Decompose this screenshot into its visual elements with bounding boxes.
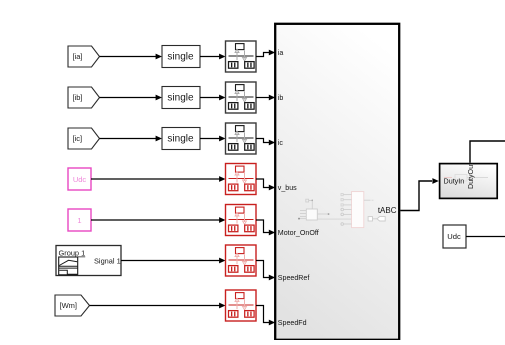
goto block Udc (right) bbox=[443, 225, 466, 248]
wire single to rate transition (row 1) bbox=[200, 54, 226, 60]
subsystem Motor Control block bbox=[275, 24, 399, 340]
subsystem block DutyIn/DutyOut bbox=[440, 163, 498, 198]
rate transition block RT5 bbox=[226, 205, 257, 236]
wire subsystem tABC to DutyIn block bbox=[400, 178, 439, 210]
From tag [Wm] bbox=[55, 295, 90, 316]
data type conversion block single (row 3) bbox=[162, 128, 200, 150]
wire rate transition to subsystem port [ic] bbox=[256, 139, 275, 146]
svg-text:1: 1 bbox=[77, 216, 81, 225]
wire [ia] to single bbox=[100, 54, 163, 60]
wire RT5 to subsystem port Motor_OnOff bbox=[256, 220, 275, 235]
rate transition block RT1 bbox=[226, 41, 257, 72]
rate transition block RT3 bbox=[226, 123, 257, 154]
signal builder block Group 1 / Signal 1 bbox=[56, 246, 121, 276]
constant block Udc (magenta) bbox=[68, 168, 91, 190]
svg-text:ic: ic bbox=[278, 139, 284, 147]
wire Udc to rate transition RT4 bbox=[91, 176, 226, 182]
svg-text:Udc: Udc bbox=[447, 232, 461, 241]
svg-text:[ib]: [ib] bbox=[73, 93, 83, 102]
svg-text:v_bus: v_bus bbox=[278, 184, 297, 192]
wire RT4 to subsystem port v_bus bbox=[256, 179, 275, 190]
rate transition block RT7 bbox=[226, 290, 257, 321]
wire [ic] to single bbox=[100, 136, 163, 142]
svg-text:[ia]: [ia] bbox=[73, 52, 83, 61]
rate transition block RT2 bbox=[226, 82, 257, 113]
wire RT7 to subsystem port SpeedFd bbox=[256, 306, 275, 326]
wire Udc right to edge bbox=[466, 236, 505, 238]
svg-text:Udc: Udc bbox=[73, 175, 87, 184]
rate transition block RT4 bbox=[226, 164, 257, 195]
svg-text:DutyOut: DutyOut bbox=[467, 163, 475, 189]
svg-text:single: single bbox=[167, 52, 194, 63]
subsystem content preview bbox=[298, 192, 385, 228]
rate transition block RT6 bbox=[226, 245, 257, 276]
wire 1 to rate transition RT5 bbox=[91, 217, 226, 223]
svg-text:tABC: tABC bbox=[378, 206, 397, 215]
svg-text:SpeedFd: SpeedFd bbox=[278, 319, 307, 327]
svg-text:ib: ib bbox=[278, 94, 284, 102]
svg-text:single: single bbox=[167, 93, 194, 104]
svg-text:DutyIn: DutyIn bbox=[444, 176, 465, 185]
wire RT6 to subsystem port SpeedRef bbox=[256, 261, 275, 281]
constant block 1 (magenta) bbox=[68, 209, 91, 231]
wire rate transition to subsystem port [ib] bbox=[256, 95, 275, 101]
wire rate transition to subsystem port [ia] bbox=[256, 50, 275, 57]
wire single to rate transition (row 2) bbox=[200, 95, 226, 101]
svg-text:ia: ia bbox=[278, 49, 284, 57]
From tag [ib] bbox=[68, 87, 100, 108]
wire single to rate transition (row 3) bbox=[200, 136, 226, 142]
From tag [ic] bbox=[68, 128, 100, 149]
svg-text:[ic]: [ic] bbox=[73, 134, 83, 143]
data type conversion block single (row 2) bbox=[162, 87, 200, 109]
wire signal builder to RT6 bbox=[121, 258, 226, 264]
svg-text:Signal 1: Signal 1 bbox=[94, 257, 121, 266]
svg-text:Motor_OnOff: Motor_OnOff bbox=[278, 229, 319, 237]
wire DutyOut upward and right bbox=[470, 141, 505, 163]
wire [ib] to single bbox=[100, 95, 163, 101]
svg-text:single: single bbox=[167, 134, 194, 145]
svg-text:Group 1: Group 1 bbox=[59, 249, 86, 258]
data type conversion block single (row 1) bbox=[162, 46, 200, 68]
svg-text:[Wm]: [Wm] bbox=[60, 301, 78, 310]
wire [Wm] to RT7 bbox=[90, 303, 226, 309]
From tag [ia] bbox=[68, 46, 100, 67]
svg-text:SpeedRef: SpeedRef bbox=[278, 274, 310, 282]
